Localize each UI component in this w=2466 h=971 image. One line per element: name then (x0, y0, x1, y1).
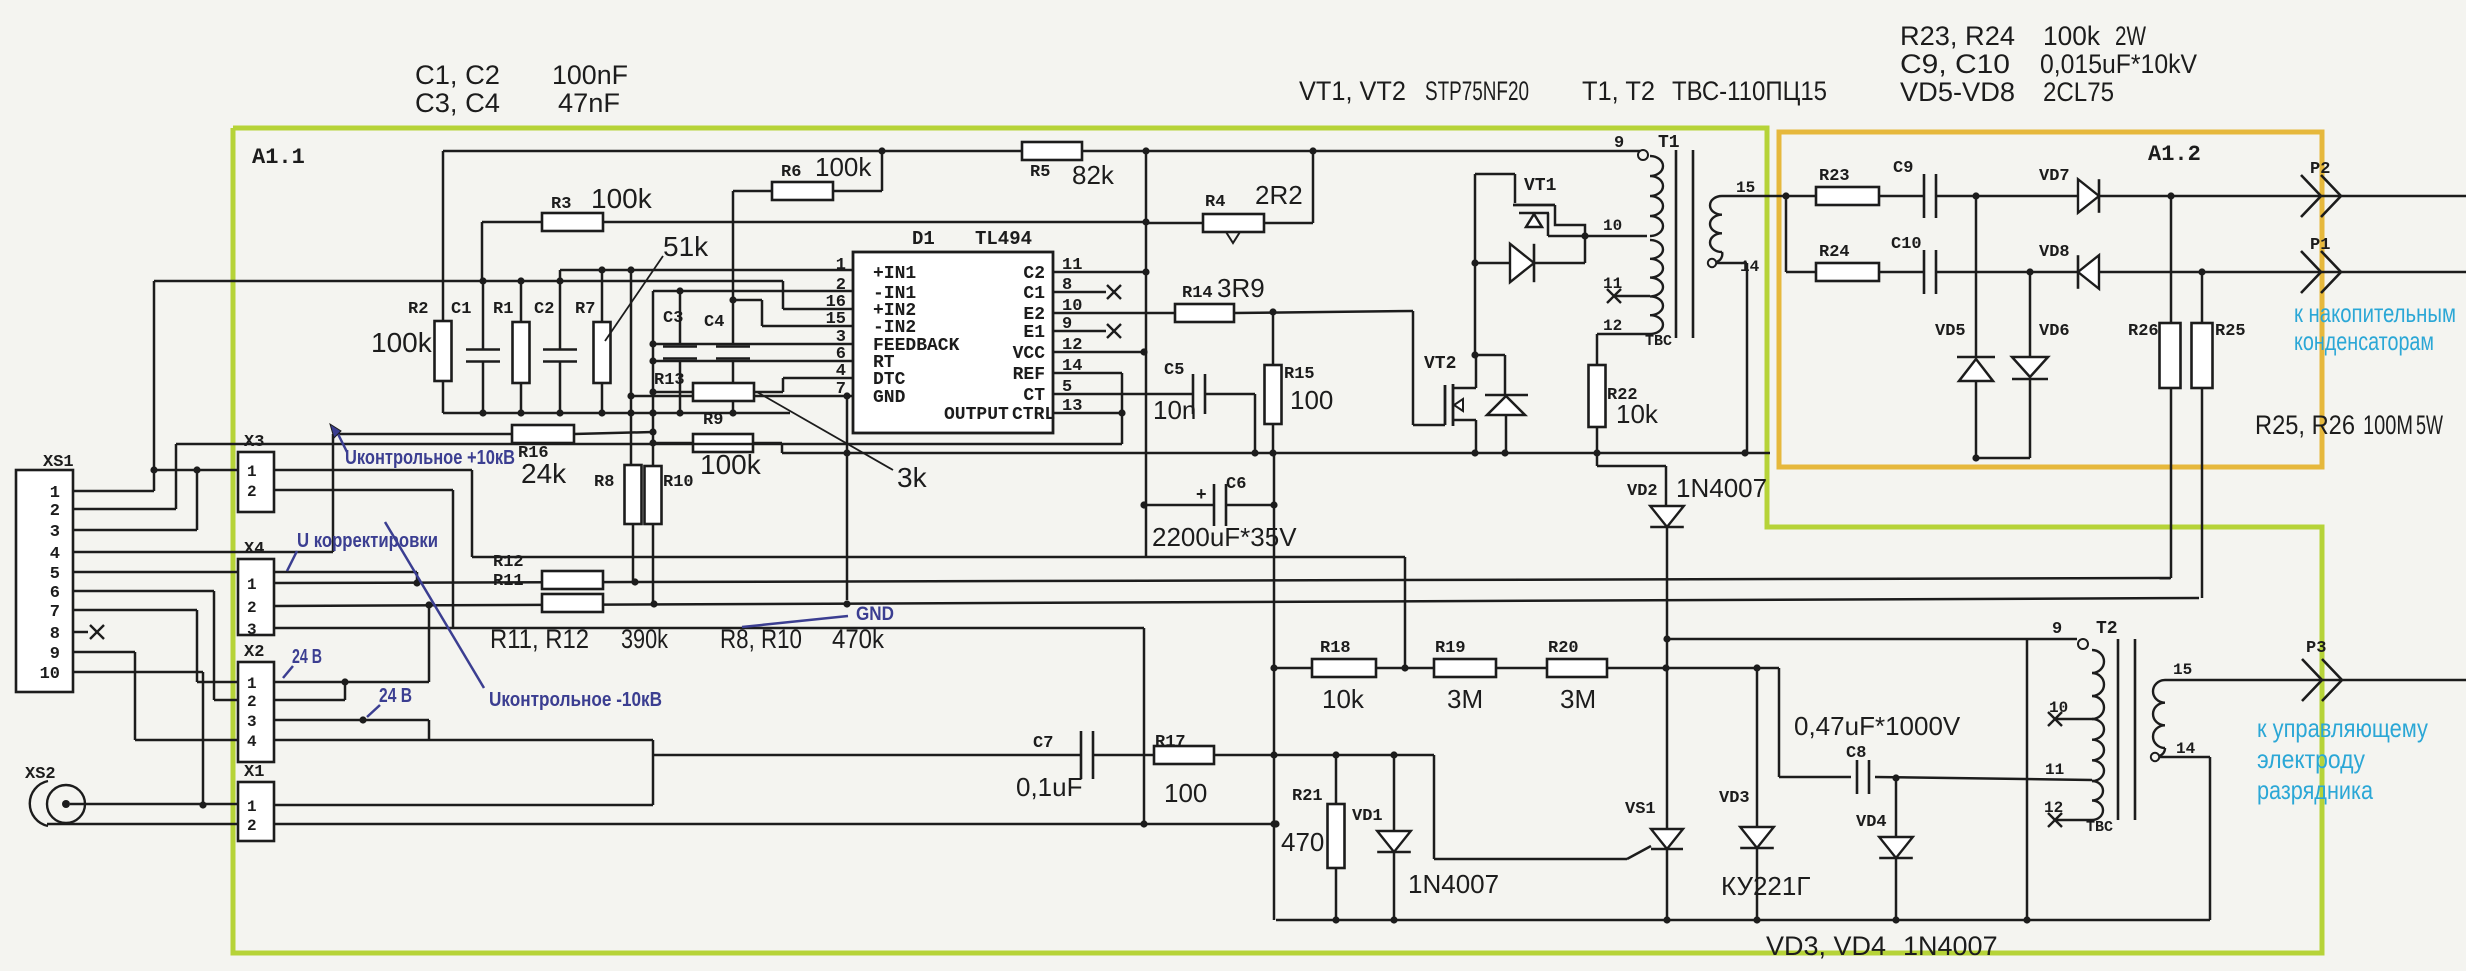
svg-text:24 В: 24 В (379, 685, 412, 707)
svg-text:C2: C2 (1023, 264, 1045, 284)
svg-text:10k: 10k (1616, 399, 1659, 429)
svg-text:15: 15 (826, 310, 846, 329)
svg-text:R3: R3 (551, 195, 571, 214)
svg-text:Uконтрольное -10кВ: Uконтрольное -10кВ (489, 689, 662, 711)
svg-text:9: 9 (2052, 620, 2062, 639)
svg-text:C8: C8 (1846, 744, 1866, 763)
svg-text:3: 3 (247, 713, 257, 731)
svg-text:3: 3 (50, 523, 60, 542)
svg-text:R19: R19 (1435, 639, 1466, 658)
svg-text:100k: 100k (815, 152, 872, 182)
svg-text:CTRL: CTRL (1012, 405, 1055, 425)
svg-text:47nF: 47nF (558, 88, 620, 118)
svg-text:6: 6 (50, 584, 60, 603)
svg-text:+: + (1196, 484, 1207, 504)
svg-text:VD3: VD3 (1719, 789, 1750, 808)
svg-text:3k: 3k (897, 462, 928, 493)
svg-text:R15: R15 (1284, 365, 1315, 384)
svg-text:R20: R20 (1548, 639, 1579, 658)
svg-text:U корректировки: U корректировки (297, 530, 438, 552)
svg-text:R9: R9 (703, 411, 723, 430)
svg-text:OUTPUT: OUTPUT (944, 405, 1009, 425)
svg-text:C3, C4: C3, C4 (415, 88, 500, 118)
svg-text:R12: R12 (493, 553, 524, 572)
svg-text:T2: T2 (2096, 619, 2118, 639)
svg-text:R7: R7 (575, 300, 595, 319)
svg-text:100k: 100k (2043, 21, 2100, 51)
svg-text:R10: R10 (663, 473, 694, 492)
svg-text:1N4007: 1N4007 (1408, 869, 1499, 899)
svg-text:ТВС-110ПЦ15: ТВС-110ПЦ15 (1672, 76, 1827, 106)
svg-text:1: 1 (836, 256, 846, 275)
svg-text:R4: R4 (1205, 193, 1225, 212)
svg-text:VD2: VD2 (1627, 482, 1658, 501)
svg-text:D1: D1 (912, 228, 935, 250)
svg-text:2R2: 2R2 (1255, 180, 1303, 210)
svg-text:3: 3 (247, 621, 257, 639)
svg-text:10: 10 (2049, 699, 2068, 717)
svg-text:1: 1 (247, 798, 257, 816)
svg-text:100k: 100k (591, 183, 653, 214)
svg-text:24 В: 24 В (292, 646, 322, 668)
svg-text:TL494: TL494 (975, 228, 1032, 250)
svg-text:R6: R6 (781, 163, 801, 182)
svg-text:2: 2 (247, 483, 257, 501)
svg-text:2: 2 (247, 817, 257, 835)
svg-text:0,015uF*10kV: 0,015uF*10kV (2040, 49, 2197, 79)
svg-text:10: 10 (1603, 217, 1622, 235)
svg-text:100nF: 100nF (552, 60, 628, 90)
svg-text:8: 8 (50, 625, 60, 644)
svg-text:P1: P1 (2310, 236, 2330, 255)
svg-text:VT2: VT2 (1424, 354, 1456, 374)
svg-text:REF: REF (1013, 365, 1045, 385)
svg-text:C1: C1 (1023, 284, 1045, 304)
svg-text:VT1, VT2: VT1, VT2 (1299, 76, 1406, 106)
svg-text:R17: R17 (1155, 733, 1186, 752)
svg-text:-IN2: -IN2 (873, 318, 916, 338)
svg-text:VD4: VD4 (1856, 813, 1887, 832)
svg-text:15: 15 (2173, 661, 2192, 679)
svg-text:C1: C1 (451, 300, 471, 319)
svg-text:1N4007: 1N4007 (1676, 473, 1767, 503)
svg-text:P3: P3 (2306, 639, 2326, 658)
svg-text:4: 4 (50, 545, 60, 564)
svg-text:VD5-VD8: VD5-VD8 (1900, 77, 2015, 107)
svg-text:7: 7 (50, 603, 60, 622)
svg-text:3R9: 3R9 (1217, 273, 1265, 303)
svg-text:A1.1: A1.1 (252, 145, 305, 170)
svg-text:3M: 3M (1560, 684, 1596, 714)
svg-text:15: 15 (1736, 179, 1755, 197)
svg-text:0,47uF*1000V: 0,47uF*1000V (1794, 711, 1961, 741)
svg-text:конденсаторам: конденсаторам (2294, 326, 2434, 356)
svg-text:C2: C2 (534, 300, 554, 319)
svg-text:X3: X3 (244, 433, 264, 452)
svg-text:R18: R18 (1320, 639, 1351, 658)
svg-text:R26: R26 (2128, 322, 2159, 341)
svg-text:2W: 2W (2115, 21, 2146, 51)
svg-text:VD7: VD7 (2039, 167, 2070, 186)
svg-text:C7: C7 (1033, 734, 1053, 753)
svg-text:КУ221Г: КУ221Г (1721, 871, 1810, 901)
svg-text:C5: C5 (1164, 361, 1184, 380)
svg-text:100: 100 (1290, 385, 1333, 415)
svg-text:T1, T2: T1, T2 (1582, 76, 1655, 106)
svg-text:E1: E1 (1023, 323, 1045, 343)
svg-text:A1.2: A1.2 (2148, 142, 2201, 167)
svg-text:P2: P2 (2310, 160, 2330, 179)
svg-text:1N4007: 1N4007 (1903, 931, 1998, 961)
svg-text:390k: 390k (621, 624, 668, 654)
svg-text:51k: 51k (663, 231, 709, 262)
svg-text:R25: R25 (2215, 322, 2246, 341)
svg-text:4: 4 (247, 733, 257, 751)
svg-text:82k: 82k (1072, 160, 1115, 190)
svg-text:C4: C4 (704, 313, 724, 332)
svg-text:100k: 100k (371, 327, 433, 358)
svg-text:C3: C3 (663, 309, 683, 328)
svg-text:CT: CT (1023, 386, 1045, 406)
svg-text:R21: R21 (1292, 787, 1323, 806)
svg-text:XS1: XS1 (43, 453, 74, 472)
svg-text:R14: R14 (1182, 284, 1213, 303)
svg-text:11: 11 (2045, 761, 2064, 779)
svg-text:ТВС: ТВС (2086, 819, 2113, 836)
svg-text:2200uF*35V: 2200uF*35V (1152, 522, 1297, 552)
svg-text:0,1uF: 0,1uF (1016, 772, 1083, 802)
svg-text:12: 12 (1603, 317, 1622, 335)
svg-text:R11, R12: R11, R12 (490, 624, 589, 654)
svg-text:VCC: VCC (1013, 344, 1046, 364)
svg-text:R11: R11 (493, 572, 524, 591)
svg-text:XS2: XS2 (25, 765, 56, 784)
svg-text:R2: R2 (408, 300, 428, 319)
svg-text:14: 14 (2176, 740, 2196, 758)
svg-text:R13: R13 (654, 371, 685, 390)
svg-text:GND: GND (873, 388, 906, 408)
svg-text:7: 7 (836, 380, 846, 399)
svg-text:разрядника: разрядника (2257, 775, 2373, 805)
svg-text:VT1: VT1 (1524, 176, 1557, 196)
svg-text:к управляющему: к управляющему (2257, 713, 2428, 743)
svg-text:470k: 470k (832, 624, 884, 654)
svg-text:1: 1 (50, 484, 60, 503)
svg-text:R23, R24: R23, R24 (1900, 21, 2015, 51)
svg-text:2: 2 (50, 502, 60, 521)
svg-text:100M: 100M (2363, 410, 2413, 440)
svg-text:2: 2 (247, 599, 257, 617)
svg-text:9: 9 (1614, 134, 1624, 153)
svg-text:R23: R23 (1819, 167, 1850, 186)
svg-text:1: 1 (247, 576, 257, 594)
svg-text:C10: C10 (1891, 235, 1922, 254)
svg-text:ТВС: ТВС (1645, 333, 1672, 350)
svg-text:X1: X1 (244, 763, 264, 782)
svg-text:X4: X4 (244, 540, 264, 559)
svg-text:C6: C6 (1226, 475, 1246, 494)
svg-text:+IN1: +IN1 (873, 264, 916, 284)
svg-text:VD5: VD5 (1935, 322, 1966, 341)
svg-text:1: 1 (247, 463, 257, 481)
svg-text:VD1: VD1 (1352, 807, 1383, 826)
svg-text:C1, C2: C1, C2 (415, 60, 500, 90)
svg-text:5W: 5W (2416, 410, 2443, 440)
svg-text:VD3, VD4: VD3, VD4 (1766, 931, 1886, 961)
svg-text:12: 12 (2044, 799, 2063, 817)
svg-text:100k: 100k (700, 449, 762, 480)
svg-text:R8, R10: R8, R10 (720, 624, 802, 654)
svg-text:C9, C10: C9, C10 (1900, 49, 2010, 79)
svg-text:10k: 10k (1322, 684, 1365, 714)
svg-text:11: 11 (1603, 275, 1622, 293)
svg-text:Uконтрольное +10кВ: Uконтрольное +10кВ (345, 447, 515, 469)
svg-text:VD6: VD6 (2039, 322, 2070, 341)
svg-text:VD8: VD8 (2039, 243, 2070, 262)
svg-text:1: 1 (247, 675, 257, 693)
svg-text:STP75NF20: STP75NF20 (1425, 76, 1529, 106)
svg-text:E2: E2 (1023, 305, 1045, 325)
svg-text:R25, R26: R25, R26 (2255, 410, 2355, 440)
svg-text:100: 100 (1164, 778, 1207, 808)
svg-text:3M: 3M (1447, 684, 1483, 714)
svg-text:10: 10 (40, 665, 60, 684)
svg-text:R8: R8 (594, 473, 614, 492)
svg-text:14: 14 (1740, 258, 1760, 276)
svg-text:9: 9 (50, 645, 60, 664)
svg-text:24k: 24k (521, 458, 567, 489)
svg-text:к накопительным: к накопительным (2294, 298, 2456, 328)
svg-text:10n: 10n (1153, 395, 1196, 425)
svg-text:DTC: DTC (873, 370, 906, 390)
svg-text:4: 4 (836, 362, 846, 381)
svg-text:2CL75: 2CL75 (2043, 77, 2114, 107)
svg-text:X2: X2 (244, 643, 264, 662)
svg-text:R5: R5 (1030, 163, 1050, 182)
svg-text:R24: R24 (1819, 243, 1850, 262)
svg-text:GND: GND (856, 604, 894, 625)
svg-text:470: 470 (1281, 827, 1324, 857)
svg-text:5: 5 (50, 565, 60, 584)
svg-text:2: 2 (247, 693, 257, 711)
svg-text:электроду: электроду (2257, 744, 2365, 774)
svg-text:VS1: VS1 (1625, 800, 1656, 819)
svg-text:R1: R1 (493, 300, 513, 319)
svg-text:C9: C9 (1893, 159, 1913, 178)
